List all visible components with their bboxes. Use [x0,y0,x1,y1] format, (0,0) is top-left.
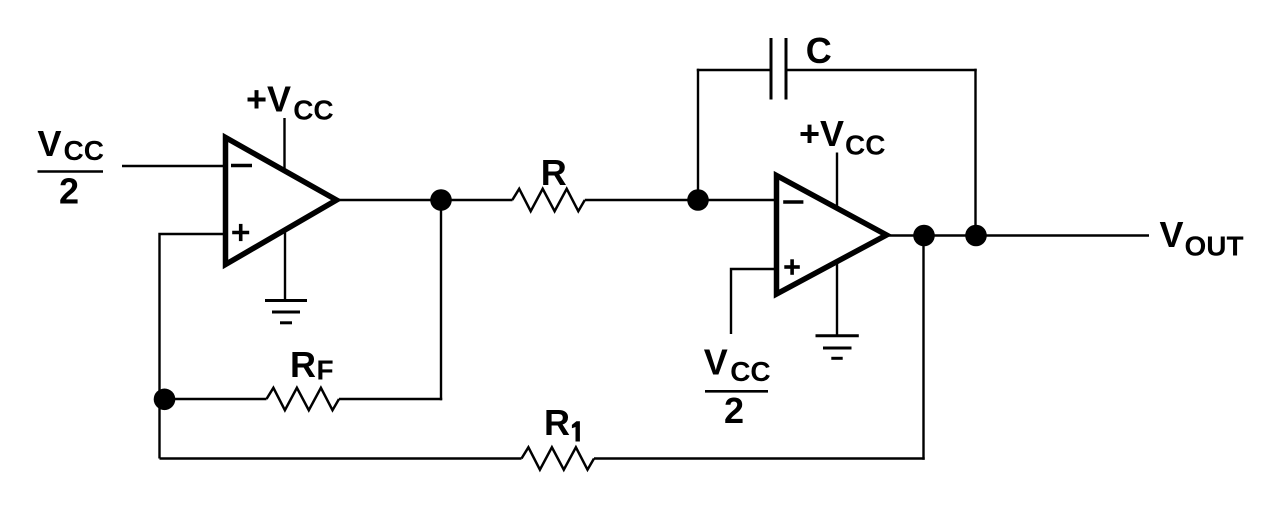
wire: U1 output to resistor R [339,199,513,201]
wire: riser from node to capacitor (left) [697,69,699,200]
svg-text:OUT: OUT [1185,231,1244,262]
op-amp U2 [777,176,887,295]
wire: capacitor top right [788,69,977,71]
wire: bottom R1 run (right) [594,457,925,459]
label R1 [544,402,580,443]
label Vout [1160,214,1244,262]
wire: U1 output node down to RF [440,200,442,400]
capacitor C [771,38,786,100]
wire: capacitor top left [697,69,770,71]
svg-text:R: R [544,402,570,443]
wire: Vcc/2 to U1 inverting input [122,165,226,167]
node: U1 output junction [430,189,452,211]
svg-text:C: C [806,30,832,71]
ground (U2) [816,263,859,358]
power +Vcc stub (U1) [283,118,285,170]
svg-text:V: V [38,123,62,164]
wire: feedback node to RF [161,398,267,400]
power +Vcc stub (U2) [836,153,838,209]
label Vcc/2 (right) [704,342,771,432]
svg-text:+V: +V [246,79,291,120]
resistor R1 [522,447,595,469]
svg-text:R: R [541,152,567,193]
wire: U2 noninverting input to Vcc/2 [731,269,777,334]
svg-text:V: V [1160,214,1184,255]
label Vcc/2 (left input) [38,123,104,212]
label +Vcc (U1) [246,79,334,126]
node: output junction 2 [965,225,987,247]
svg-text:+V: +V [799,113,844,154]
wire: R to U2 inverting input [585,199,777,201]
label RF [290,344,334,386]
wire: bottom R1 run (left) [160,457,522,459]
wire: U2 output to Vout [888,234,1149,236]
wire: RF to U1 output riser [339,398,442,400]
node: U2 inverting input junction [687,189,709,211]
resistor RF [267,388,340,410]
svg-text:CC: CC [64,135,104,166]
svg-text:R: R [290,344,316,385]
node: feedback node [154,389,176,411]
svg-text:2: 2 [724,390,744,431]
svg-text:CC: CC [730,356,770,387]
svg-text:F: F [317,355,334,386]
wire: output node down to R1 run [922,236,924,460]
svg-text:V: V [704,342,728,383]
svg-text:2: 2 [59,171,79,212]
wire: capacitor right riser to output [974,69,976,236]
wire: U1 noninverting feedback (left vertical) [160,234,227,459]
node: output junction 1 [913,225,935,247]
ground (U1) [265,232,307,323]
op-amp U1 [226,138,337,265]
label +Vcc (U2) [799,113,885,161]
resistor R [512,189,585,211]
svg-text:CC: CC [293,95,333,126]
svg-text:CC: CC [845,130,885,161]
